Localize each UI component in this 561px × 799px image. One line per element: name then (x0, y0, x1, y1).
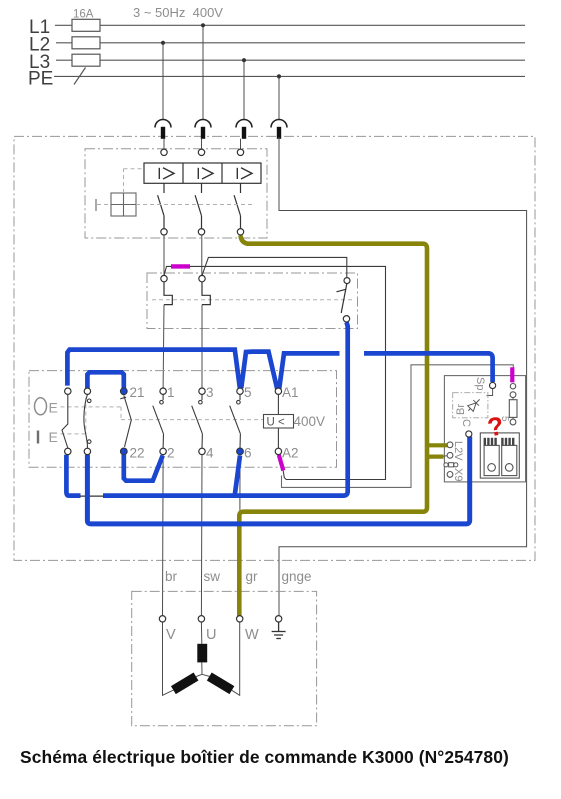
wire tap L1 to plug 2 (202, 25, 204, 119)
wire plug3 to Q1 (240, 139, 242, 149)
terminal circle K1 aux bottom (343, 316, 349, 322)
contactor K1 box (147, 273, 358, 329)
Q1 contact pole2 (195, 183, 201, 228)
enclosure boundary box (14, 136, 535, 560)
blue wire contact 6 drop (235, 456, 240, 495)
svg-text:400V: 400V (294, 414, 326, 429)
terminal circle K1 aux top (344, 278, 350, 284)
motor winding W (202, 622, 240, 695)
Q1 contact pole3 (234, 183, 240, 228)
terminal circle S1 22 (120, 448, 127, 455)
K1 aux contact blade (337, 284, 347, 313)
S1 mechanical link main row (121, 419, 265, 421)
svg-text:PE: PE (28, 69, 53, 90)
svg-text:U <: U < (267, 417, 286, 429)
pcb left pin 1 (447, 442, 453, 448)
blue wire bottom bus 2 (87, 437, 469, 524)
terminal circle Q1 top pole2 (198, 149, 204, 155)
terminal circle Q1 bottom pole2 (198, 229, 204, 235)
net L3 (56, 59, 525, 61)
wire plug2 to Q1 (201, 139, 203, 149)
PE slash (74, 68, 86, 85)
terminal circle S1 c2 bottom (84, 448, 90, 454)
svg-text:L2V: L2V (452, 441, 464, 461)
svg-text:E: E (49, 400, 58, 416)
pcb left pin lead 2 (444, 455, 451, 456)
S1 mechanical link row O (61, 406, 122, 408)
svg-text:6: 6 (244, 446, 252, 461)
terminal circle U (198, 616, 204, 622)
terminal circle S1 c1 top (65, 388, 71, 394)
fuse F3 (72, 54, 100, 66)
terminal circle S1 5 (237, 388, 243, 394)
junction dot L2 (161, 41, 165, 45)
terminal circle S1 3 (199, 388, 205, 394)
plug connector X2 (195, 120, 211, 139)
net L2 (56, 42, 525, 44)
terminal circle Q1 top pole1 (161, 149, 167, 155)
K1 main contact pole2 (202, 282, 210, 305)
terminal circle S1 4 (199, 448, 205, 454)
terminal circle Q1 bottom pole1 (161, 229, 167, 235)
main switch S1 box (29, 371, 337, 468)
junction dot PE (277, 74, 281, 78)
ground symbol (272, 622, 286, 639)
wire S1 contact2 to V terminal (162, 455, 165, 616)
motor box (132, 591, 317, 725)
terminal circle S1 6 (237, 448, 244, 455)
svg-text:A2: A2 (282, 446, 299, 461)
Q1 trip symbol pole1 (159, 168, 174, 179)
svg-text:16A: 16A (73, 9, 94, 21)
blue wire main feed top (67, 350, 339, 388)
Q1 trip symbol pole2 (198, 168, 213, 179)
S1 contact blade c4 (153, 394, 164, 448)
pcb mini fuse (444, 463, 458, 467)
wire K1 pole2 to S1 contact 3 (201, 305, 203, 389)
svg-text:4: 4 (206, 446, 214, 461)
motor winding V (163, 622, 203, 695)
svg-text:C: C (460, 419, 472, 427)
junction dot L3 (242, 58, 246, 62)
wire S1 contact6 to W terminal (239, 455, 241, 616)
svg-text:V: V (166, 627, 176, 643)
terminal circle W (237, 616, 243, 622)
caption (20, 747, 509, 768)
olive wire phase3 via PCB to W (239, 236, 427, 617)
net PE (54, 75, 525, 77)
S1 mechanical link row I (61, 433, 86, 435)
terminal circle S1 c2 top (84, 388, 90, 394)
svg-text:3 ~ 50Hz 400V: 3 ~ 50Hz 400V (133, 5, 223, 20)
svg-text:21: 21 (130, 385, 145, 400)
Q1 contact pole1 (158, 183, 164, 228)
Q1 mechanical link dashes (97, 169, 252, 205)
wire plug1 to Q1 (163, 139, 165, 149)
Q1 overcurrent release block (144, 163, 261, 183)
terminal circle Q1 bottom pole3 (237, 229, 243, 235)
wire Q1 pole1 to K1 (163, 235, 165, 276)
terminal circle S1 c1 bottom (65, 448, 71, 454)
svg-text:5: 5 (244, 385, 252, 400)
motor winding U (197, 622, 207, 674)
Q1 trip symbol pole3 (237, 168, 252, 179)
svg-text:U: U (206, 627, 216, 643)
S1 contact blade c5 (192, 394, 203, 448)
plug connector X3 (236, 120, 252, 139)
S1 contact blade c2 (84, 394, 91, 448)
svg-text:W: W (245, 627, 259, 643)
motor protection switch Q1 box (85, 149, 267, 238)
terminal block X (480, 433, 519, 478)
diode symbol (466, 397, 483, 414)
svg-text:3: 3 (206, 385, 214, 400)
magenta mark on pole1 net (171, 264, 190, 268)
svg-text:Br: Br (455, 404, 467, 415)
S1 contact blade c3 (120, 395, 131, 447)
pin chain circle 2 (510, 392, 516, 398)
S1 contact blade c1 (62, 394, 68, 448)
symbol O (35, 398, 47, 415)
terminal circle PE motor (275, 616, 281, 622)
magenta mark at A2 (279, 455, 284, 471)
svg-text:22: 22 (130, 446, 145, 461)
terminal block left cell (484, 438, 500, 476)
pcb fuse link (512, 398, 514, 400)
pin chain circle 3 (510, 419, 516, 425)
terminal circle K1 pole2 (199, 275, 205, 281)
blue wire contact2 to 21 (87, 372, 123, 388)
wire net pole2 to aux contact (202, 257, 347, 277)
wire A1 to undervoltage relay (277, 394, 279, 414)
terminal circle S1 A2 (275, 448, 281, 454)
svg-text:1: 1 (167, 385, 175, 400)
terminal circle V (159, 616, 165, 622)
wire net pole1 to A2 coil (164, 266, 386, 479)
terminal circle S1 A1 (275, 388, 281, 394)
blue wire A1 to PCB Sp (364, 353, 493, 382)
magenta mark at PCB pin (510, 367, 514, 382)
fuse F1 (72, 19, 100, 31)
S1 mechanical link c2 vertical (85, 398, 87, 434)
svg-text:X9: X9 (452, 468, 464, 481)
svg-text:E: E (49, 429, 58, 445)
wire relay to A2 (277, 429, 279, 449)
olive stub to pcb pin 1 (427, 443, 448, 447)
wire net A2 to PCB pin (282, 365, 514, 488)
pin Sp circle (490, 382, 496, 388)
terminal block right cell (501, 438, 517, 476)
blue wire aux contact to bottom bus 1 (66, 322, 347, 495)
terminal circle Q1 top pole3 (237, 149, 243, 155)
pcb left pin 2 (447, 452, 453, 458)
K1 mechanical link dashes (152, 299, 352, 301)
pin C circle (466, 431, 472, 437)
Q1 actuator (96, 193, 136, 216)
svg-text:A1: A1 (282, 385, 299, 400)
wire S1 contact4 to U terminal (200, 455, 203, 616)
pin chain circle 1 (510, 384, 515, 389)
svg-text:Sp: Sp (474, 377, 486, 390)
plug connector X4 (271, 120, 287, 139)
svg-text:gnge: gnge (282, 569, 312, 584)
terminal circle S1 21 (120, 388, 127, 395)
plug connector X1 (155, 120, 171, 139)
symbol I (37, 431, 39, 444)
S1 mechanical link step (120, 407, 122, 420)
svg-text:br: br (165, 569, 178, 584)
PCB board A1 box (444, 376, 525, 482)
svg-text:2: 2 (167, 446, 175, 461)
wire tap PE to plug 4 (278, 76, 280, 119)
junction dot L1 (201, 23, 205, 27)
olive stub to pcb pin 2 (425, 455, 444, 459)
blue wire 22 to 2 (124, 455, 163, 481)
terminal circle K1 pole1 (161, 275, 167, 281)
svg-text:sw: sw (204, 569, 221, 584)
wire gap piece on bottom bus 1 (81, 493, 104, 499)
wire PE routing (279, 137, 527, 616)
fuse F2 (72, 37, 100, 49)
K1 main contact pole1 (164, 282, 172, 305)
wire Q1 pole2 to K1 (201, 235, 203, 276)
pin Sp lead (487, 389, 493, 396)
net L1 (55, 24, 525, 26)
wire tap L2 to plug 1 (162, 43, 164, 120)
bridge rectifier Br box (453, 393, 488, 418)
svg-text:gr: gr (246, 569, 259, 584)
terminal circle S1 1 (160, 388, 166, 394)
S1 contact blade c6 (230, 394, 241, 448)
wire K1 pole1 to S1 contact 1 (162, 305, 165, 389)
undervoltage relay U< (264, 415, 294, 429)
terminal circle S1 2 (160, 448, 166, 454)
wire tap L3 to plug 3 (243, 60, 245, 119)
pcb left pin 3 (447, 472, 453, 478)
